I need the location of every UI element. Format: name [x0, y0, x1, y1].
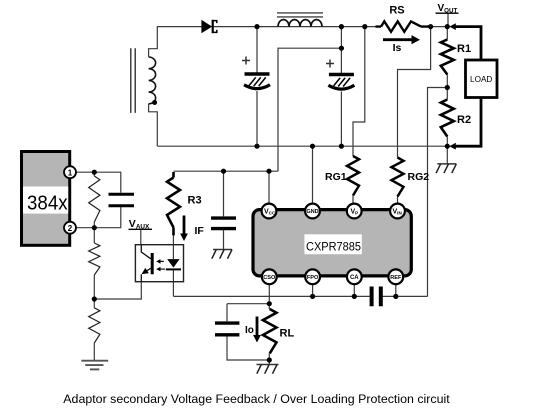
junction — [267, 301, 272, 306]
wire VP pin lead — [352, 196, 354, 205]
ground (left, bar style) — [81, 361, 108, 370]
svg-text:Adaptor secondary Voltage Feed: Adaptor secondary Voltage Feedback / Ove… — [63, 392, 450, 406]
svg-text:IF: IF — [195, 225, 205, 237]
junction — [92, 296, 97, 301]
wire C2 branch — [340, 27, 342, 147]
resistor (pin1-pin2 divider) — [89, 176, 100, 222]
svg-text:GND: GND — [307, 209, 319, 215]
wire 384x pin1 net — [70, 172, 121, 193]
wire opto emitter net — [94, 282, 141, 299]
wire R3 bottom to LED — [172, 235, 174, 259]
svg-text:R1: R1 — [457, 43, 471, 55]
junction — [310, 294, 315, 299]
wire R1-R2 junction — [446, 75, 448, 100]
IC U1 384x body — [22, 152, 70, 246]
wire right ground stub — [446, 146, 448, 164]
wire ground rail (secondary return) — [158, 145, 448, 147]
wire C1 branch — [256, 27, 258, 147]
wire R3 cap branch — [223, 171, 225, 249]
ground (below Vcc bypass cap) — [212, 250, 232, 259]
junction — [267, 357, 272, 362]
junction — [339, 46, 344, 51]
svg-text:VP: VP — [351, 209, 359, 216]
wire transformer bottom lead to ground rail — [149, 104, 158, 146]
wire top rail diode to RS — [214, 26, 381, 28]
node Vout label — [436, 3, 459, 15]
svg-text:Is: Is — [393, 42, 402, 54]
svg-text:CSO: CSO — [263, 275, 276, 281]
pin REF — [388, 269, 403, 284]
svg-text:LOAD: LOAD — [470, 75, 492, 84]
wire CSO pin lead down — [268, 284, 270, 304]
current arrow IF — [180, 216, 188, 242]
junction — [445, 144, 450, 149]
wire top rail from transformer to diode — [149, 27, 202, 57]
load top wire with arrow — [449, 23, 481, 60]
svg-text:CXPR7885: CXPR7885 — [306, 239, 361, 253]
junction — [393, 294, 398, 299]
svg-text:RL: RL — [280, 328, 295, 340]
current arrow Io — [253, 317, 261, 343]
svg-text:REF: REF — [390, 275, 402, 281]
schottky diode D1 — [201, 20, 216, 33]
wire REF pin lead down — [395, 284, 397, 297]
wire from C2 node to R3 rail and VCC — [174, 48, 342, 171]
junction — [92, 225, 97, 230]
pin FPO — [305, 269, 320, 284]
label CXPR7885 — [304, 234, 361, 254]
wire FPO pin lead down — [312, 284, 314, 297]
wire VIN pin lead — [397, 197, 399, 205]
capacitor C2 (electrolytic) — [326, 60, 354, 90]
opto phototransistor — [141, 245, 152, 282]
optocoupler box — [135, 245, 183, 282]
capacitor (output filter) — [215, 323, 239, 335]
svg-text:VIN: VIN — [393, 209, 403, 216]
pin CSO — [262, 269, 277, 284]
junction — [310, 144, 315, 149]
load bottom wire with arrow — [449, 98, 481, 150]
wire left divider leads — [93, 172, 95, 360]
svg-text:384x: 384x — [27, 191, 68, 214]
transformer secondary winding — [149, 57, 156, 104]
wire CA pin lead down — [353, 284, 355, 297]
svg-text:RG1: RG1 — [325, 171, 347, 183]
pin Vcc — [262, 204, 277, 219]
junction — [352, 294, 357, 299]
ground (right, below R2/LOAD) — [436, 164, 456, 173]
svg-text:FPO: FPO — [307, 275, 319, 281]
node Vaux label — [129, 218, 153, 231]
wire R2 bottom lead — [446, 137, 448, 147]
svg-text:Io: Io — [245, 325, 254, 336]
wire bottom rail right part (REF side) — [383, 295, 428, 297]
wire LED cathode down — [172, 269, 174, 296]
capacitor (Vcc bypass) — [211, 218, 236, 229]
wire RS to Vout node — [422, 26, 447, 28]
resistor (below pin2) — [89, 243, 100, 275]
junction — [339, 144, 344, 149]
resistor RG1 — [347, 156, 359, 196]
junction — [445, 85, 450, 90]
wire Vaux stub — [140, 230, 142, 245]
resistor (bottom left) — [89, 308, 100, 343]
svg-text:RG2: RG2 — [408, 171, 430, 183]
pin 2 — [64, 222, 76, 234]
pin CA — [347, 269, 362, 284]
junction — [266, 169, 271, 174]
wire RG1 feed from top rail — [353, 27, 365, 156]
op-amp/controller U2 CXPR7885 body — [253, 210, 411, 276]
junction — [221, 169, 226, 174]
pin GND — [305, 204, 320, 219]
wire GND pin feed — [312, 146, 314, 204]
wire VCC pin feed — [268, 171, 270, 204]
svg-text:R3: R3 — [188, 195, 202, 207]
opto light arrows — [156, 259, 165, 271]
svg-text:2: 2 — [68, 224, 73, 233]
inductor L1 winding — [278, 20, 322, 27]
transformer core — [131, 48, 135, 113]
svg-text:CA: CA — [350, 275, 359, 281]
resistor R3 — [172, 172, 175, 235]
resistor RL — [263, 309, 277, 354]
wire output cap branch — [227, 304, 269, 360]
junction — [254, 144, 259, 149]
junction — [428, 24, 433, 29]
capacitor between CA and REF — [372, 287, 381, 307]
resistor RS — [376, 21, 429, 31]
load box — [466, 60, 498, 98]
wire bottom rail left part (CA side) — [174, 295, 370, 297]
capacitor (pin1-pin2) — [109, 194, 135, 206]
wire feedback from R1-R2 node down to REF rail — [428, 88, 448, 297]
wire 384x pin2 net — [70, 206, 121, 227]
current arrow Is — [383, 35, 420, 44]
wire RL leads — [268, 304, 270, 365]
svg-text:RS: RS — [389, 4, 404, 16]
pin VIN — [390, 204, 405, 219]
svg-text:R2: R2 — [457, 114, 471, 126]
capacitor C1 (electrolytic) — [242, 57, 270, 89]
wire R1 top lead — [446, 27, 448, 40]
junction — [339, 24, 344, 29]
wire CSO spur to output cap — [227, 303, 269, 305]
junction — [362, 24, 367, 29]
transformer phase dot — [152, 100, 157, 105]
wire RG2 feed from top rail — [398, 27, 431, 158]
ground (below RL) — [257, 365, 279, 374]
resistor R2 — [441, 100, 454, 137]
wire Vout label stub — [447, 13, 449, 26]
opto LED — [166, 259, 181, 269]
svg-text:VCC: VCC — [264, 209, 276, 216]
junction — [254, 24, 259, 29]
inductor L1 core bars — [277, 13, 323, 17]
junction — [92, 170, 97, 175]
junction — [445, 24, 450, 29]
resistor RG2 — [392, 158, 404, 197]
resistor R1 — [441, 40, 454, 75]
svg-text:1: 1 — [68, 168, 73, 177]
pin VP — [347, 204, 362, 219]
pin 1 — [64, 166, 76, 178]
